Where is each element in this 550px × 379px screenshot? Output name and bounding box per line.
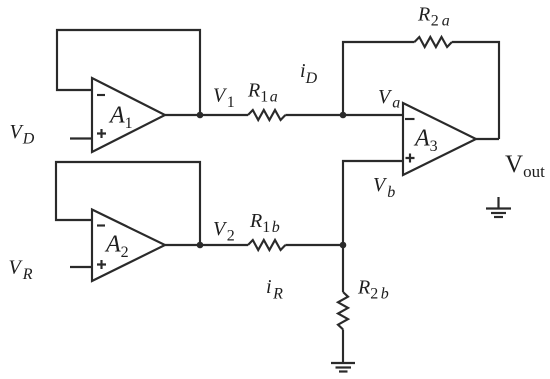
svg-text:A3: A3: [413, 126, 438, 156]
wire A1 non-inverting input from V_D: [70, 137, 92, 139]
svg-text:R1b: R1b: [249, 210, 280, 236]
node V1 junction dot: [197, 112, 204, 119]
wire A2 non-inverting input from V_R: [70, 266, 92, 268]
svg-text:V1: V1: [213, 85, 235, 112]
svg-text:VD: VD: [10, 121, 35, 148]
op-amp A3: [403, 103, 476, 175]
wire A1 inverting input and feedback loop: [57, 30, 200, 115]
resistor R2a: [415, 37, 452, 47]
wire R1b to node Vb: [285, 244, 343, 246]
svg-text:Vout: Vout: [505, 151, 545, 181]
wire R2a feedback right branch to A3 output: [452, 42, 499, 139]
svg-text:A1: A1: [108, 103, 133, 133]
wire node Vb vertical to A3 non-inverting input: [343, 161, 403, 292]
node V2 junction dot: [197, 242, 204, 249]
wire A2 output to node V2: [165, 244, 248, 246]
ground below R2b: [331, 363, 355, 372]
svg-text:V2: V2: [213, 218, 235, 245]
wire A1 output to node V1: [165, 114, 248, 116]
svg-text:iD: iD: [300, 60, 318, 87]
ground near Vout: [486, 197, 511, 217]
wire R1a to A3 inverting input: [285, 114, 403, 116]
svg-text:iR: iR: [266, 276, 283, 303]
resistor R2b: [338, 292, 348, 329]
node Va junction dot: [340, 112, 347, 119]
wire R2b to ground: [342, 329, 344, 363]
wire R2a feedback left branch: [343, 42, 415, 115]
wire A2 inverting input and feedback loop: [56, 162, 200, 245]
node Vb junction dot: [340, 242, 347, 249]
svg-text:A2: A2: [104, 232, 129, 262]
svg-text:R2b: R2b: [357, 277, 389, 303]
resistor R1a: [248, 110, 285, 120]
svg-text:R1a: R1a: [247, 80, 278, 106]
svg-text:Va: Va: [378, 86, 400, 112]
svg-text:Vb: Vb: [373, 174, 395, 201]
wire A3 output: [476, 138, 499, 140]
svg-text:R2a: R2a: [417, 4, 450, 30]
op-amp A1: [92, 78, 165, 152]
svg-text:VR: VR: [9, 257, 33, 284]
resistor R1b: [248, 240, 285, 250]
op-amp A2: [92, 210, 165, 282]
